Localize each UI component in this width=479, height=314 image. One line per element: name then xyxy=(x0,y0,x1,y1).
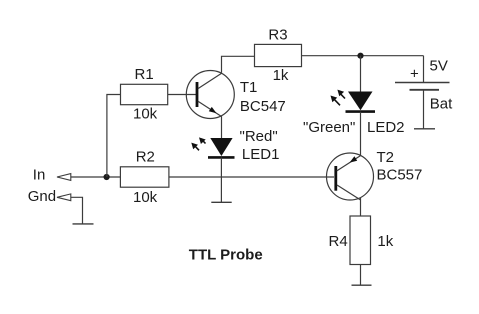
battery Bat xyxy=(395,83,450,129)
wire T1 emitter to LED1 xyxy=(221,116,223,138)
transistor T1 xyxy=(186,71,234,119)
wire In to R2 xyxy=(71,176,121,178)
svg-text:1k: 1k xyxy=(377,233,393,250)
svg-text:1k: 1k xyxy=(273,67,289,84)
resistor R3 xyxy=(255,44,302,66)
svg-text:R2: R2 xyxy=(136,149,155,166)
wire junction riser to R1 xyxy=(107,95,121,178)
svg-text:R3: R3 xyxy=(268,27,287,44)
wire LED2 to T2 xyxy=(360,112,362,156)
svg-text:R4: R4 xyxy=(329,233,348,250)
wire junction to LED2 xyxy=(360,56,362,92)
ground R4 xyxy=(352,284,372,286)
LED D1 xyxy=(191,137,234,157)
svg-text:Bat: Bat xyxy=(430,96,453,113)
svg-text:10k: 10k xyxy=(133,106,158,123)
wire T2 collector to R4 xyxy=(360,198,362,216)
resistor R1 xyxy=(121,84,168,104)
wire T1 collector riser xyxy=(222,56,255,73)
svg-text:10k: 10k xyxy=(133,189,158,206)
svg-text:"Green": "Green" xyxy=(303,119,355,136)
svg-text:BC557: BC557 xyxy=(377,167,423,184)
resistor R4 xyxy=(350,216,371,265)
wire R2 to T2 base xyxy=(169,176,334,178)
svg-text:LED1: LED1 xyxy=(242,146,280,163)
pin Gnd arrow xyxy=(57,194,71,201)
svg-text:+: + xyxy=(410,66,419,83)
node input junction xyxy=(104,174,110,180)
svg-text:BC547: BC547 xyxy=(240,98,286,115)
svg-text:Gnd: Gnd xyxy=(28,188,56,205)
wire R3 to battery xyxy=(302,55,424,57)
wire R4 to ground xyxy=(360,265,362,286)
node supply junction xyxy=(357,53,363,59)
svg-text:TTL Probe: TTL Probe xyxy=(189,247,263,264)
svg-text:LED2: LED2 xyxy=(367,119,405,136)
ground LED1 xyxy=(211,201,231,203)
svg-text:"Red": "Red" xyxy=(240,128,278,145)
svg-text:R1: R1 xyxy=(135,66,154,83)
wire battery drop xyxy=(423,56,425,83)
pin In arrow xyxy=(57,174,71,181)
ground input xyxy=(73,223,94,225)
svg-text:In: In xyxy=(33,166,46,183)
wire R1 to T1 base xyxy=(168,94,196,96)
svg-text:T1: T1 xyxy=(240,79,258,96)
svg-text:T2: T2 xyxy=(377,149,395,166)
wire LED1 to ground xyxy=(220,157,222,202)
resistor R2 xyxy=(120,167,168,187)
transistor T2 xyxy=(327,153,374,200)
wire Gnd to ground xyxy=(71,197,83,224)
svg-text:5V: 5V xyxy=(430,58,448,75)
LED D2 xyxy=(331,90,376,112)
